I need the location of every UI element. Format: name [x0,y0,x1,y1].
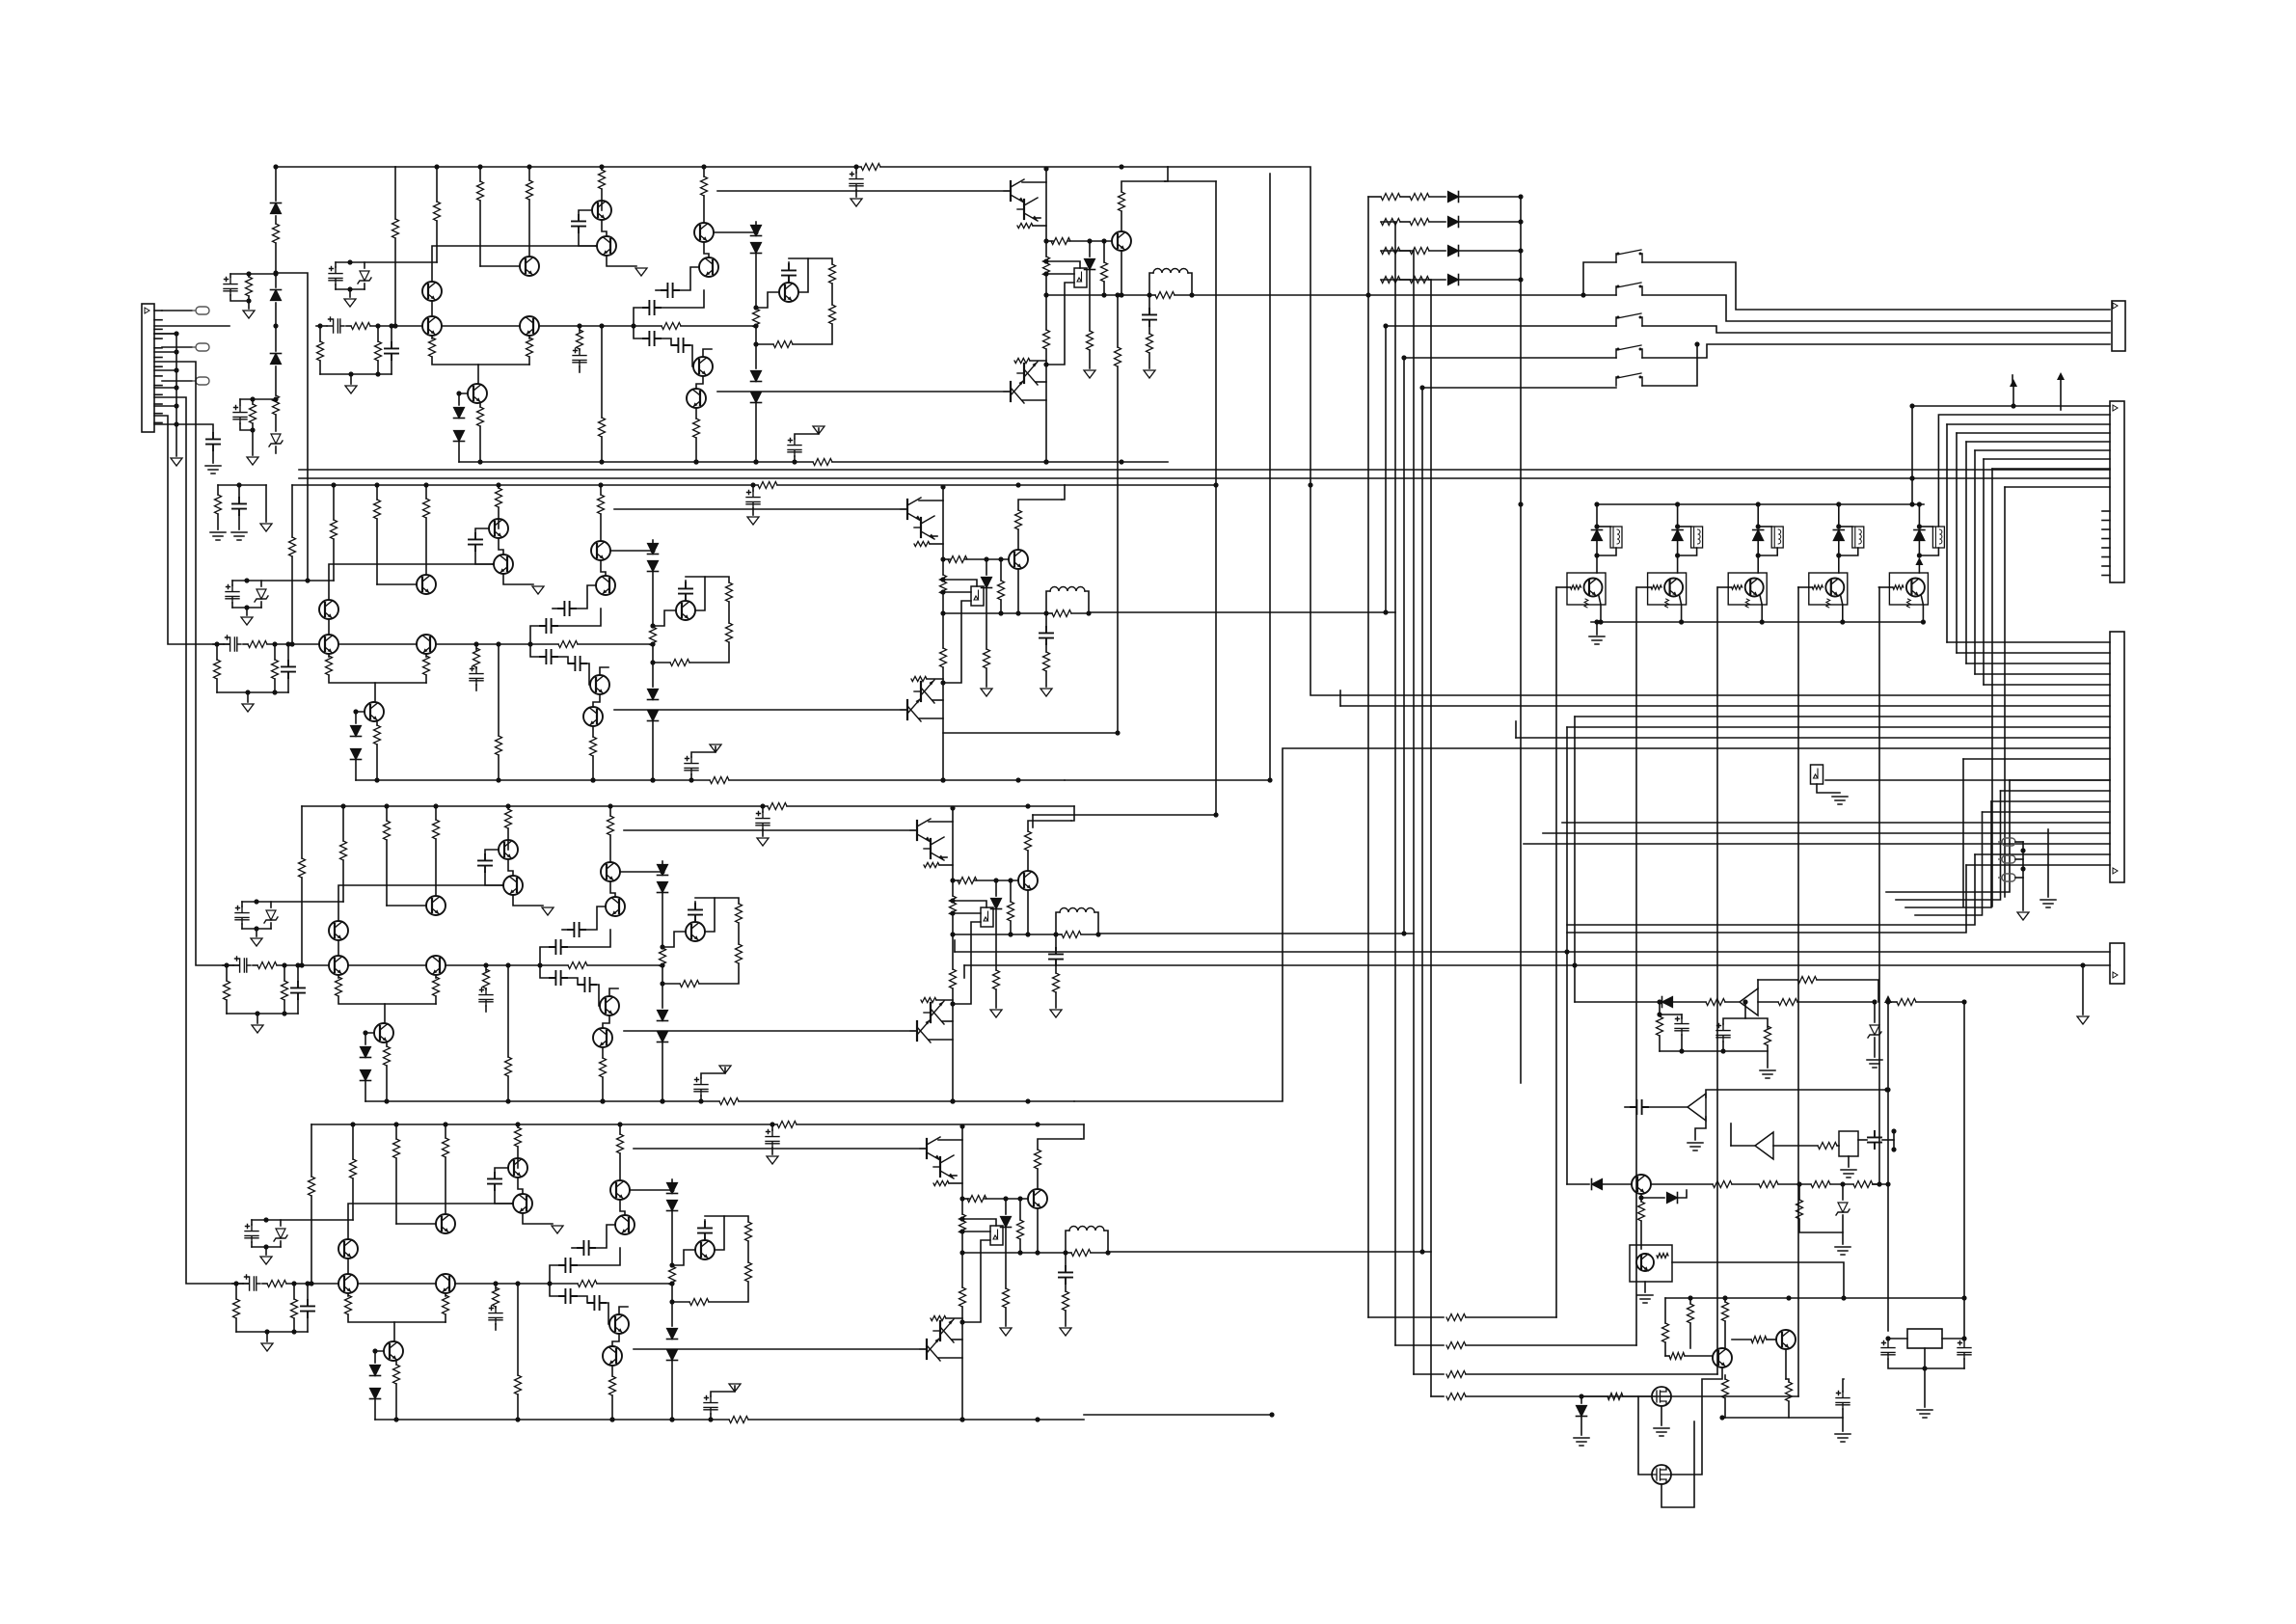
wire [507,806,509,809]
wire [1640,1194,1642,1202]
wire [762,806,764,812]
wire [1027,890,1029,934]
wire [498,485,500,488]
wire [270,902,272,907]
resistor R213 [950,896,957,915]
resistor R184 [745,1222,752,1241]
capacitor C64 [578,1241,595,1255]
wire [265,1247,267,1255]
wire [1148,295,1150,309]
diode D71 [1085,259,1095,270]
wire [275,447,277,453]
junction [1101,238,1106,243]
relay driver box RY1 [1567,573,1606,605]
diode D52 [351,726,362,737]
wire [252,430,254,455]
capacitor C g1 [1836,1392,1850,1410]
wire ch2 riser [1386,326,1616,612]
resistor R srv6 [1765,1026,1771,1045]
junction [1035,1417,1040,1421]
wire [320,373,392,375]
resistor R204 [689,1299,709,1306]
resistor R152 [590,737,597,756]
diode D34 [667,1329,678,1340]
transistor Q12 ch3 [686,922,705,941]
junction [1675,524,1680,528]
resistor R p4 [1853,1181,1873,1188]
wire [1395,1344,1444,1346]
wire CN3 pin14 [2102,538,2110,540]
junction [1189,292,1194,297]
off-page arrow V+ [1884,995,1892,1003]
terminal TP3 [2002,874,2015,881]
resistor Rrow4b [1410,277,1429,284]
wire m2 gate [1638,1396,1652,1475]
wire CN1 pin y365 [154,351,176,353]
ground z ch3 [251,938,262,946]
wire [280,1220,282,1226]
mosfet M1 [1652,1387,1671,1406]
resistor R53 [505,809,512,828]
wire [446,964,568,966]
wire [595,985,600,1006]
junction [669,1262,674,1267]
wire [1797,1001,1875,1003]
junction [272,690,277,694]
junction [753,341,758,346]
wire b3 link [1033,814,1216,816]
wire [1695,1117,1706,1140]
wire [1873,1183,1879,1185]
resistor R271 [1014,358,1030,363]
wire [485,988,487,989]
junction [1119,292,1123,297]
wire [944,601,971,683]
ground sensor [1832,797,1848,804]
diode Drow3 [1448,246,1459,257]
wire m2 loop [1661,1421,1694,1507]
relay driver box RY4 [1809,573,1848,605]
wire [301,806,303,858]
wire relay supply rail [1597,503,1924,505]
wire [1623,1395,1652,1397]
junction [940,484,945,489]
wire bus 1633 [1574,717,1576,1002]
resistor R142 [650,627,657,646]
relay coil RY4 [1852,527,1864,548]
wire [329,564,493,600]
junction [1043,238,1048,243]
wire [386,840,388,906]
wire [235,1318,237,1332]
capacitor C43 [479,988,493,1007]
relay contact K2 [1616,317,1642,326]
wire RY5 diode leg [1918,541,1920,555]
wire darl2 base ch2 [614,709,905,711]
wire [572,1247,578,1249]
sensor box [1811,765,1823,784]
wire [230,295,249,301]
wire arrow2 [2060,375,2062,410]
wire drop 2066 [1991,469,1993,907]
wire drop 1 [1956,433,1958,653]
wire [1055,934,1057,948]
resistor R203 [680,981,699,988]
transistor Q8 ch2 [596,576,615,595]
wire RY5 sense to CN3 [1938,415,2110,527]
wire [942,594,944,648]
wire [1000,600,1002,613]
wire [788,262,790,265]
resistor R rail ch1 [861,164,880,171]
wire [601,167,603,170]
wire K4 join [1642,344,1697,386]
wire control bus 1 [1367,197,1369,1317]
wire [1651,1183,1713,1185]
wire [576,1248,620,1265]
ground q ch1 [635,268,647,276]
junction [1115,730,1120,735]
resistor R234 [933,1180,949,1185]
wire CN4 pin4 [1975,673,2110,675]
wire CN3 pin6 [1975,449,2110,451]
wire CN1 pin y421 [154,405,176,407]
driver box Q p2 [1630,1245,1672,1282]
wire ch1-ch2 link [276,273,308,581]
wire [1724,1375,1726,1379]
wire RY5 base in [1878,586,1889,588]
capacitor C83 [550,971,567,985]
junction [317,323,322,328]
wire CN3 pin9 [2005,486,2110,488]
wire [938,1139,962,1141]
wire [247,692,249,702]
capacitor C in ch2 [224,636,241,651]
ground ch4 [767,1156,778,1164]
wire control bus 4 [1430,280,1432,1396]
wire [370,325,422,327]
junction [1518,219,1523,224]
wire [1010,880,1012,902]
resistor R g8 [1786,1382,1793,1401]
ground filt2 [231,532,247,540]
junction [2020,848,2025,853]
junction [1053,932,1058,936]
wire [832,461,1168,463]
resistor R301 [1147,334,1153,353]
transistor Q11 ch1 [468,384,487,403]
junction [493,1281,498,1286]
junction [650,777,655,782]
transistor Q9 ch2 [590,675,609,694]
resistor R222 [940,648,947,667]
resistor R92 [326,656,333,675]
wire [1165,167,1168,181]
wire [612,1334,619,1346]
wire [507,965,509,1057]
wire nest p16 [1905,801,1991,907]
wire [445,1314,446,1322]
wire [672,1250,695,1265]
junction [246,271,251,276]
wire RY5 emitter [1921,596,1923,622]
junction [689,777,693,782]
transistor Q5 ch3 [499,840,518,859]
ground subA [243,311,255,318]
junction [348,371,353,376]
junction [959,1417,964,1421]
wire CN1 to ch4 input [154,397,249,1284]
transistor Q8 ch3 [606,897,625,916]
wire [701,1068,725,1078]
diode D g1 [1577,1406,1587,1417]
wire RY3 coil bottom [1758,548,1777,555]
transistor Q16 ch3 [930,1003,932,1022]
ground o1 ch3 [990,1010,1002,1017]
wire CN1 pin y346 [154,333,176,335]
capacitor C filter CN1 [206,433,220,450]
capacitor C bypass ch1 [850,173,863,191]
wire [297,999,299,1014]
junction [1840,1181,1845,1186]
diode D21 [751,243,762,254]
wire tp gnd [2022,842,2024,910]
wire [694,902,696,905]
wire [704,1220,706,1223]
wire RY1 supply drop [1596,504,1598,528]
wire [336,288,365,290]
wire [995,989,997,1008]
resistor Rctl2 [1446,1342,1466,1349]
junction [631,323,635,328]
transistor Q9 ch4 [609,1314,629,1334]
wire bus 1317 [1269,174,1271,780]
wire CN1 pin10 [154,393,162,395]
transistor Q13 ch1 [1010,181,1012,201]
wire [335,284,337,289]
resistor R subA [246,277,253,296]
wire [1882,1139,1894,1141]
wire [493,563,494,565]
wire [1022,399,1046,401]
wire RY2 to driver [1677,555,1679,573]
wire [1664,1342,1666,1356]
connector CN3 [2110,401,2124,582]
wire [607,256,636,266]
capacitor C in ch3 [233,957,251,972]
resistor Re RY2 [1665,599,1669,608]
wire darl2 base ch1 [717,391,1009,392]
transistor Q4 ch1 [520,316,539,336]
wire RY5 to driver [1918,563,1920,573]
wire [275,243,277,287]
resistor R164 [393,1365,400,1384]
wire [498,519,500,528]
junction [600,1098,605,1103]
resistor R183 [736,904,743,923]
wire [1893,1131,1895,1150]
junction [1885,1087,1890,1092]
wire CN1 pin8 [154,375,162,377]
wire [1724,1398,1726,1418]
transistor Q11 ch2 [365,702,384,721]
zener ZD2 [257,589,266,599]
resistor R244 [967,1196,986,1203]
junction [224,962,229,967]
junction [940,556,945,561]
wire CN5 gnd leg [2082,965,2084,1015]
wire CN3 pin12 [2102,520,2110,522]
capacitor C122 [1040,627,1053,644]
wire [1071,612,1089,614]
ground o2 ch1 [1144,370,1155,378]
ground q ch3 [542,907,554,915]
wire [499,538,503,555]
wire [297,965,299,982]
wire control bus 3 [1413,251,1415,1374]
wire [364,284,365,289]
wire [507,1076,509,1101]
wire [1368,196,1381,198]
junction [1756,524,1761,528]
junction [393,1122,398,1126]
wire [1767,1339,1776,1340]
wire [2015,841,2023,843]
wire [963,1219,996,1226]
junction [577,323,581,328]
wire [307,1317,309,1332]
capacitor C93 [579,978,596,991]
wire bus 1261 [1215,181,1217,815]
diode D33 [658,1011,668,1021]
resistor R22 [331,520,338,539]
junction [609,1417,614,1421]
wire [652,721,654,780]
wire [954,922,981,1004]
resistor R RY4 [1812,585,1823,589]
transistor Q14 ch1 [1023,200,1025,219]
junction [1657,999,1661,1004]
wire [1942,1338,1964,1340]
junction [1017,1196,1022,1201]
wire [929,1039,953,1041]
junction [1043,459,1048,464]
wire [498,507,500,519]
junction [1095,932,1100,936]
relay coil RY1 [1610,527,1622,548]
wire [855,190,857,197]
wire [619,1179,621,1181]
wire output ch1 [1046,294,1149,296]
wire CN4 pin20 [1524,843,2110,845]
resistor Rrow1a [1381,194,1400,201]
wire CN4 pin16 [1991,800,2110,802]
wire [386,1066,388,1101]
diode D74 [1001,1217,1012,1228]
junction [1383,609,1388,614]
capacitor C71 [643,301,661,314]
resistor R72 [214,660,221,679]
junction [1015,482,1020,487]
wire ctl RY3 [1716,587,1718,1374]
wire RY5 coil top [1919,526,1932,528]
wire CN4 pin15 [2001,790,2111,792]
wire [319,326,321,341]
wire output ch3 [953,934,1056,935]
wire [256,929,257,936]
wire CN1 pin y384 [154,369,176,371]
transistor Q9 ch3 [600,996,619,1015]
resistor R11 [392,219,399,238]
junction [1564,949,1569,954]
capacitor C reg2 [1958,1341,1971,1360]
wire [788,281,790,283]
junction [950,805,955,810]
junction [1756,553,1761,557]
wire [703,349,712,357]
wire [691,746,716,757]
wire [609,806,611,816]
junction [959,1216,964,1221]
wire [1799,1219,1843,1232]
wire [1567,586,1571,588]
resistor R304 [1063,1291,1069,1311]
resistor R132 [496,736,502,755]
diode D RY1 [1592,530,1603,541]
thermal switch ch1 [1074,268,1087,287]
resistor Re RY1 [1584,599,1588,608]
wire RY1 emitter [1599,596,1601,622]
junction [496,482,500,487]
wire [479,426,481,462]
wire [445,1293,446,1296]
wire CN4 pin7 [1340,705,2110,707]
inductor L ch3 [1060,908,1094,913]
resistor R214 [959,1214,966,1233]
wire [1089,270,1091,331]
wire input ch4 [232,1283,243,1285]
transistor Q12 ch1 [779,283,798,302]
mosfet M2 [1652,1465,1671,1484]
wire [349,289,351,297]
capacitor C subA [224,278,237,296]
ground tp [2017,912,2029,920]
wire [1466,1344,1636,1346]
wire [953,880,959,881]
junction [1308,482,1312,487]
resistor R292 [1052,610,1071,617]
transistor Q RY1 [1584,579,1603,597]
wire [275,303,277,351]
junction [1885,1336,1890,1340]
junction [1043,166,1048,171]
junction [1043,610,1048,615]
capacitor C42 [470,667,483,686]
wire [1068,240,1112,242]
junction [515,1417,520,1421]
transistor Q17 ch2 [906,700,908,719]
diode D42 [648,711,659,721]
junction [1909,501,1914,506]
wire [1005,1228,1007,1288]
wire RY1 base in [1556,586,1567,588]
wire [927,678,943,680]
wire [585,907,606,930]
wire [949,1182,962,1184]
wire [939,864,953,866]
junction [254,926,258,931]
wire [705,898,739,932]
